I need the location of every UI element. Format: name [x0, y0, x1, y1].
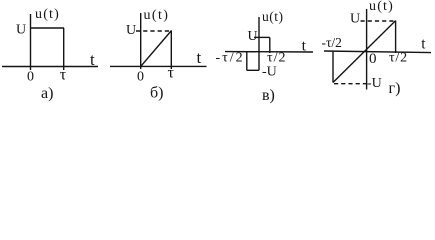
- diagram b: ramp from 0 to (tau,U): [141, 31, 172, 67]
- diagram g: horizontal axis t: [324, 51, 431, 53]
- svg-text:u(t): u(t): [144, 8, 170, 23]
- diagram v: positive pulse top at U: [259, 36, 270, 38]
- svg-text:u(t): u(t): [262, 9, 284, 24]
- diagram a: horizontal axis t: [2, 66, 98, 68]
- diagram a: pulse top at U from 0 to tau: [31, 27, 65, 29]
- svg-text:U: U: [16, 23, 26, 38]
- diagram g: trailing edge at tau/2: [395, 21, 397, 53]
- diagram v: positive pulse trailing edge at tau/2: [269, 37, 271, 53]
- svg-text:τ: τ: [60, 67, 67, 84]
- diagram v: vertical axis u(t): [258, 17, 260, 70]
- svg-text:u(t): u(t): [369, 0, 394, 14]
- diagram b: horizontal axis t: [110, 65, 207, 67]
- svg-text:-τ/2: -τ/2: [322, 35, 342, 50]
- svg-text:U: U: [248, 29, 258, 44]
- svg-text:-U: -U: [367, 76, 382, 91]
- diagram v: tick at U on axis: [254, 36, 259, 38]
- svg-text:u(t): u(t): [35, 7, 60, 22]
- diagram b: trailing edge at tau: [170, 31, 172, 70]
- svg-text:0: 0: [137, 70, 144, 85]
- diagram v: negative pulse bottom at -U: [247, 69, 259, 71]
- svg-text:t: t: [302, 37, 307, 54]
- svg-text:в): в): [262, 87, 275, 104]
- svg-text:г): г): [389, 80, 401, 97]
- svg-text:-τ/2: -τ/2: [216, 51, 245, 66]
- svg-text:U: U: [350, 12, 360, 27]
- svg-text:t: t: [90, 50, 95, 69]
- diagram v: horizontal axis t: [225, 51, 313, 53]
- svg-text:0: 0: [27, 70, 34, 85]
- diagram b: dashed level U: [136, 30, 170, 32]
- svg-text:б): б): [150, 85, 163, 102]
- svg-text:0: 0: [369, 51, 377, 67]
- svg-text:τ/2: τ/2: [389, 51, 408, 66]
- diagram g: leading edge at -tau/2: [332, 51, 334, 82]
- svg-text:t: t: [197, 48, 202, 67]
- diagram g: dashed level -U: [334, 83, 367, 85]
- diagram a: vertical axis u(t): [30, 14, 32, 70]
- svg-text:τ/2: τ/2: [267, 51, 287, 66]
- diagram b: vertical axis u(t): [140, 13, 142, 69]
- svg-text:τ: τ: [168, 65, 175, 82]
- diagram g: vertical axis u(t): [366, 9, 368, 90]
- svg-text:-U: -U: [262, 65, 277, 80]
- svg-text:t: t: [421, 36, 426, 53]
- diagram v: negative pulse leading edge at -tau/2: [246, 52, 248, 71]
- diagram g: ramp from (-tau/2,-U) to (tau/2,U): [333, 21, 396, 83]
- svg-text:а): а): [41, 85, 53, 102]
- diagram a: pulse trailing edge at tau: [63, 28, 65, 70]
- diagram g: dashed level U: [361, 20, 395, 22]
- svg-text:U: U: [126, 23, 136, 38]
